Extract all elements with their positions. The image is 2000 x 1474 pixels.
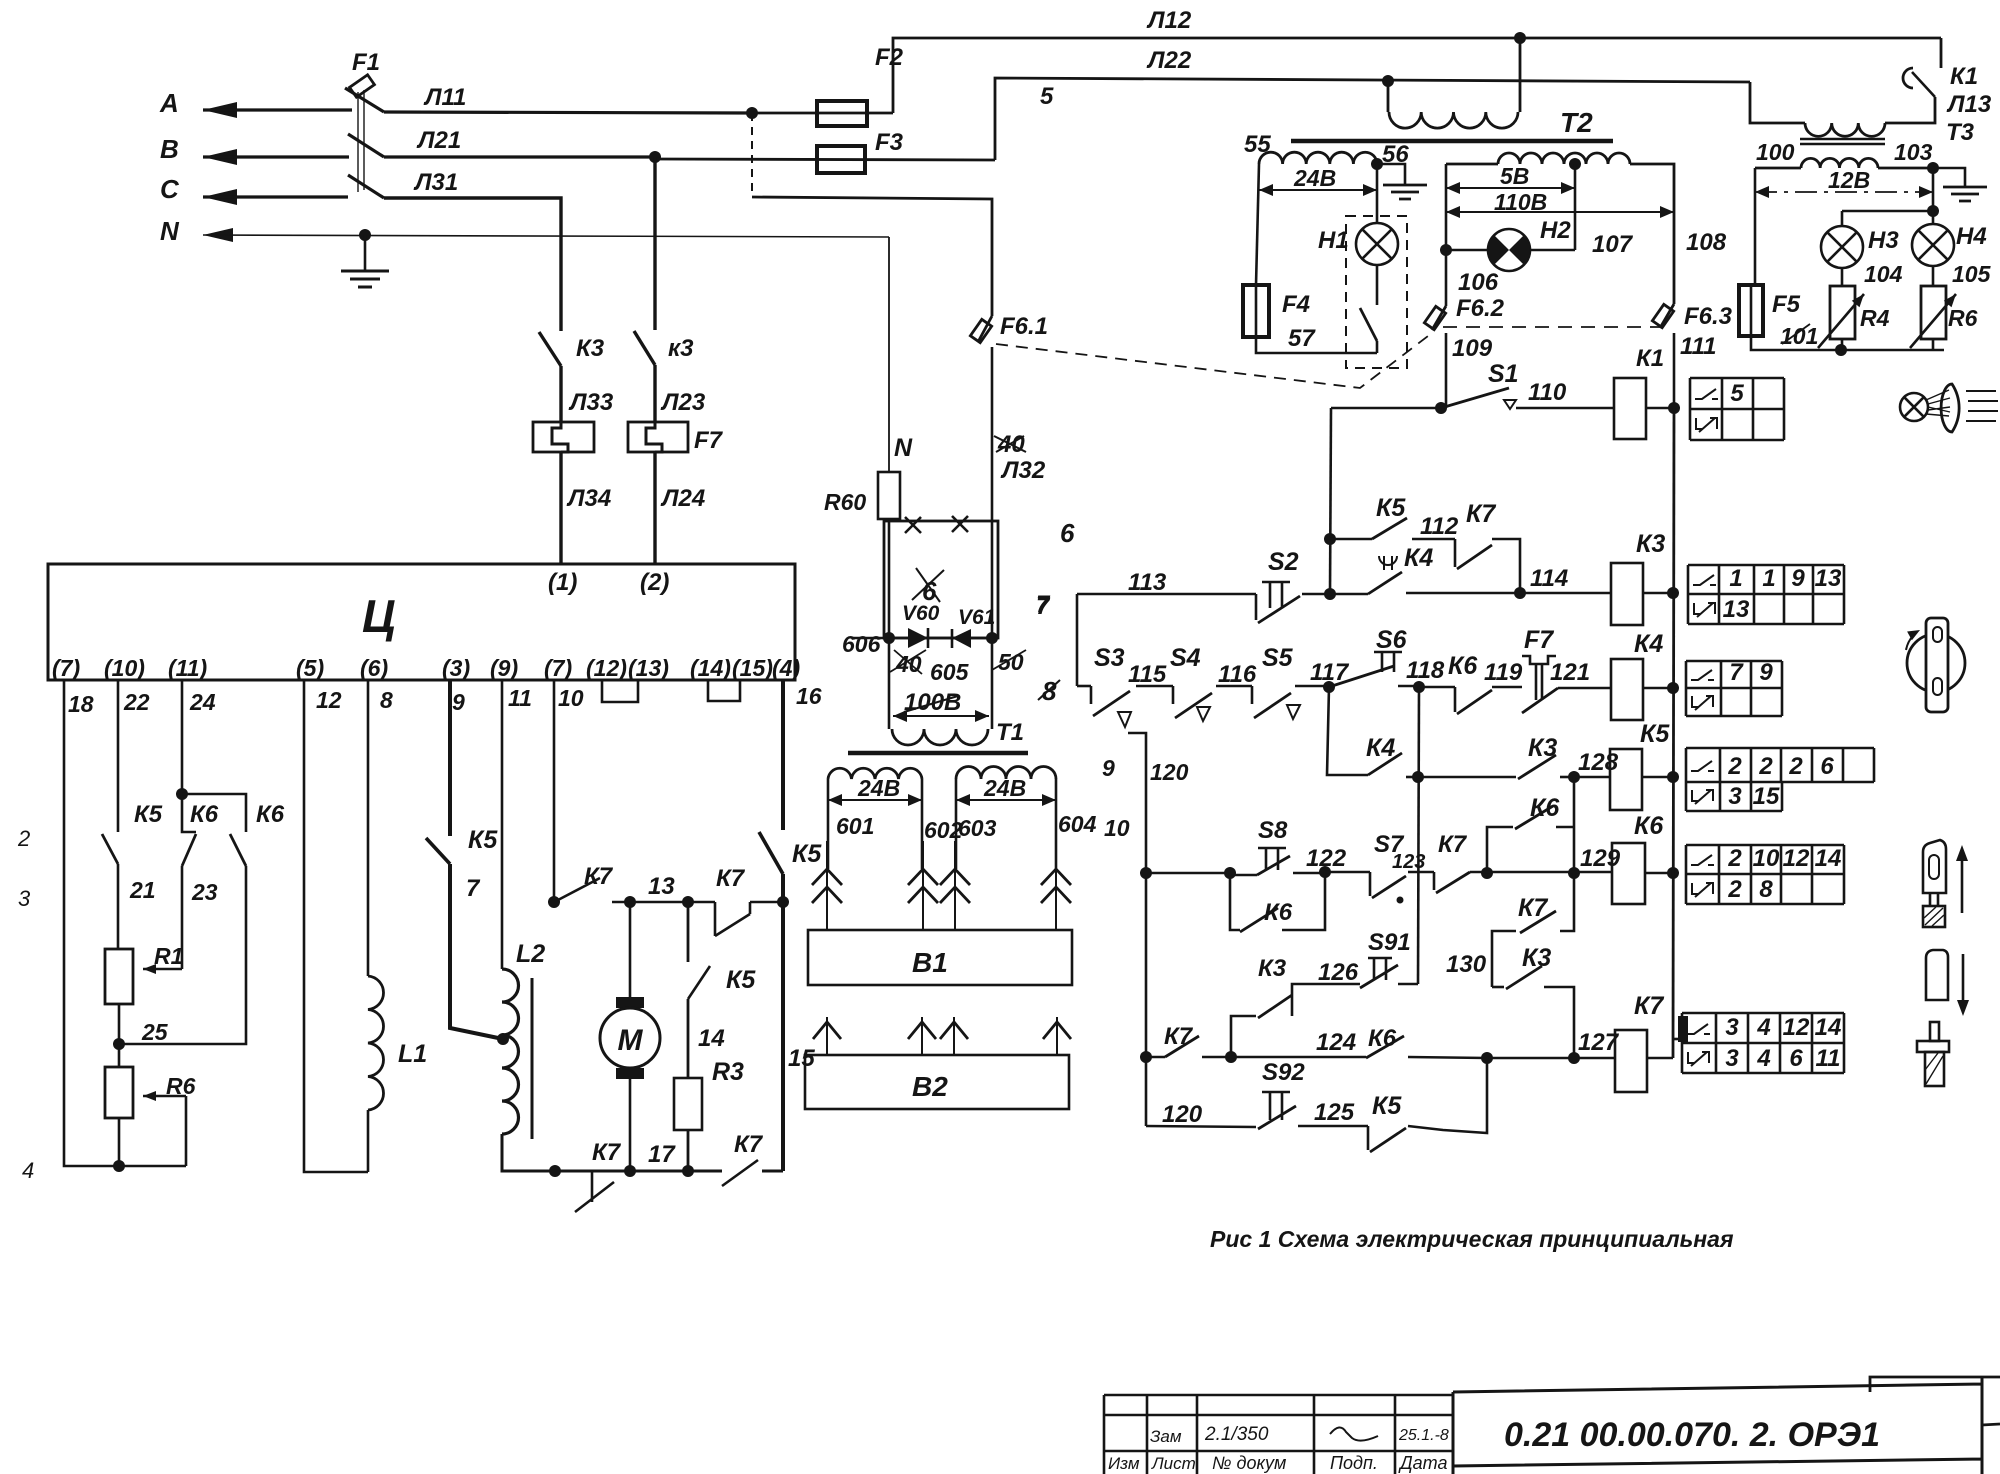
- svg-text:120: 120: [1150, 759, 1189, 785]
- svg-text:С: С: [160, 174, 180, 204]
- svg-text:Л31: Л31: [413, 169, 458, 196]
- fuse F6.1: [970, 319, 991, 342]
- svg-text:116: 116: [1218, 661, 1257, 688]
- svg-text:К7: К7: [592, 1139, 622, 1166]
- svg-text:S8: S8: [1258, 817, 1288, 844]
- svg-text:123: 123: [1392, 851, 1425, 873]
- svg-text:(14): (14): [690, 655, 731, 681]
- svg-text:(5): (5): [296, 655, 324, 681]
- svg-text:К5: К5: [1372, 1092, 1402, 1120]
- svg-text:13: 13: [648, 873, 675, 900]
- svg-text:Изм: Изм: [1108, 1454, 1140, 1473]
- arrow pair into B1 at x=1056: [1055, 841, 1057, 930]
- junction dot row14 right: [1481, 1052, 1493, 1064]
- junction dot L2 tap: [497, 1033, 509, 1045]
- svg-text:В2: В2: [912, 1071, 948, 1102]
- wire S1 to row1 vertical: [1330, 408, 1331, 594]
- junction dot K6 bypass left: [1481, 867, 1493, 879]
- svg-text:S92: S92: [1262, 1059, 1305, 1086]
- icon rotary switch knob: [1907, 634, 1965, 692]
- junction dot R4 bottom: [1835, 344, 1847, 356]
- svg-text:(15): (15): [732, 655, 773, 681]
- T2 secondary 5В-110В winding: [1446, 163, 1498, 166]
- arrow into B2 at x=827: [826, 1017, 828, 1055]
- svg-text:F6.1: F6.1: [1000, 313, 1048, 340]
- junction dot row3 left: [1412, 771, 1424, 783]
- svg-text:Подп.: Подп.: [1330, 1453, 1378, 1473]
- svg-text:Рис 1 Схема электрическая п: Рис 1 Схема электрическая принципиальная: [1210, 1226, 1734, 1252]
- svg-text:Л11: Л11: [423, 84, 466, 111]
- vertical bus right: [1673, 408, 1674, 1058]
- junction dot row1a: [1324, 533, 1336, 545]
- svg-text:9: 9: [1759, 659, 1773, 686]
- wire Л12: [893, 38, 1941, 113]
- svg-text:9: 9: [1791, 565, 1805, 592]
- svg-text:Н4: Н4: [1956, 223, 1987, 250]
- svg-text:6: 6: [1789, 1045, 1803, 1072]
- contact table K6: [1686, 845, 1844, 874]
- svg-text:К7: К7: [1466, 500, 1496, 528]
- junction dot bus K4: [1667, 682, 1679, 694]
- svg-text:21: 21: [129, 877, 156, 903]
- svg-text:R60: R60: [824, 489, 866, 515]
- svg-text:4: 4: [22, 1158, 34, 1183]
- svg-text:К7: К7: [1164, 1023, 1194, 1050]
- rectifier block B2: [805, 1055, 1069, 1109]
- svg-text:101: 101: [1780, 323, 1818, 349]
- svg-text:14: 14: [698, 1025, 725, 1052]
- row14 line: [1146, 1056, 1165, 1059]
- svg-text:F6.3: F6.3: [1684, 303, 1733, 330]
- svg-text:Т1: Т1: [996, 719, 1024, 746]
- svg-text:6: 6: [1060, 518, 1075, 548]
- wire 5В left vertical: [1445, 164, 1448, 306]
- svg-text:Л12: Л12: [1146, 7, 1192, 34]
- svg-text:2.1/350: 2.1/350: [1204, 1424, 1269, 1445]
- svg-text:К4: К4: [1366, 734, 1395, 762]
- black marker K7 table: [1678, 1016, 1688, 1042]
- svg-text:К7: К7: [1634, 992, 1664, 1020]
- svg-text:11: 11: [508, 685, 532, 711]
- svg-text:(1): (1): [548, 569, 577, 596]
- junction dot wire24: [176, 788, 188, 800]
- svg-text:5: 5: [1730, 380, 1744, 407]
- svg-text:R1: R1: [154, 943, 183, 969]
- svg-text:3: 3: [1725, 1045, 1739, 1072]
- svg-text:7: 7: [1036, 593, 1051, 620]
- svg-text:(4): (4): [772, 655, 800, 681]
- junction dot node 103: [1927, 162, 1939, 174]
- contact table K5: [1686, 748, 1874, 782]
- svg-text:24В: 24В: [983, 775, 1026, 801]
- svg-text:16: 16: [796, 683, 822, 709]
- svg-text:Т2: Т2: [1560, 107, 1593, 138]
- svg-text:24В: 24В: [1293, 165, 1336, 191]
- svg-text:Дата: Дата: [1398, 1453, 1448, 1473]
- fuse F6.3: [1652, 304, 1673, 327]
- svg-text:К5: К5: [1376, 494, 1406, 522]
- svg-text:605: 605: [930, 659, 970, 685]
- dashed enclosure around H1: [1346, 216, 1407, 368]
- svg-text:К7: К7: [584, 863, 614, 890]
- svg-text:К7: К7: [734, 1131, 764, 1158]
- svg-text:V61: V61: [958, 606, 995, 629]
- svg-text:57: 57: [1288, 325, 1316, 352]
- svg-text:R6: R6: [1948, 305, 1978, 331]
- svg-text:Н1: Н1: [1318, 227, 1349, 254]
- svg-text:Лист: Лист: [1151, 1454, 1196, 1473]
- junction dot 128: [1568, 771, 1580, 783]
- svg-text:L1: L1: [398, 1040, 427, 1068]
- svg-text:К5: К5: [1640, 720, 1670, 748]
- junction dot on N line: [359, 229, 371, 241]
- svg-text:К6: К6: [190, 801, 219, 828]
- svg-text:(10): (10): [104, 655, 145, 681]
- svg-text:110: 110: [1528, 379, 1567, 406]
- svg-text:Зам: Зам: [1150, 1427, 1182, 1446]
- arrow pair into B1 at x=955: [954, 841, 956, 930]
- svg-text:(3): (3): [442, 655, 470, 681]
- icon arrow up: [1961, 850, 1964, 913]
- wire 601: [827, 779, 830, 869]
- svg-text:А: А: [159, 88, 179, 118]
- arrow into B2 at x=1057: [1056, 1017, 1058, 1055]
- svg-text:12: 12: [316, 687, 342, 713]
- svg-text:10: 10: [1753, 845, 1780, 872]
- svg-text:Т3: Т3: [1946, 119, 1975, 146]
- svg-text:1: 1: [1729, 565, 1742, 592]
- svg-text:25.1.-8: 25.1.-8: [1398, 1427, 1449, 1444]
- svg-text:(13): (13): [628, 655, 669, 681]
- svg-text:121: 121: [1550, 659, 1590, 686]
- svg-text:К1: К1: [1636, 345, 1664, 372]
- wire 16 thick: [781, 680, 785, 830]
- ground at T2 24В winding: [1377, 164, 1405, 184]
- svg-text:604: 604: [1058, 811, 1097, 837]
- title block frame: [1104, 1395, 1453, 1474]
- svg-text:F3: F3: [875, 129, 904, 156]
- svg-text:128: 128: [1578, 749, 1619, 776]
- contact table K3: [1688, 565, 1844, 594]
- svg-text:100: 100: [1756, 139, 1795, 165]
- svg-text:112: 112: [1420, 513, 1459, 540]
- svg-text:24: 24: [189, 689, 216, 715]
- X mark left on rectifier box: [905, 517, 921, 533]
- svg-text:F5: F5: [1772, 291, 1801, 318]
- svg-text:107: 107: [1592, 231, 1634, 258]
- svg-text:14: 14: [1815, 1014, 1842, 1041]
- svg-text:F2: F2: [875, 44, 904, 71]
- svg-text:К3: К3: [576, 335, 605, 362]
- svg-text:3: 3: [18, 886, 31, 911]
- svg-text:(7): (7): [52, 655, 80, 681]
- svg-text:К5: К5: [726, 966, 756, 994]
- linkage F6.2 to F6.3 dashed: [1443, 326, 1662, 328]
- T2 secondary 24В winding 55-56: [1259, 152, 1377, 164]
- junction dot K1 right: [1668, 402, 1680, 414]
- svg-text:115: 115: [1128, 661, 1167, 688]
- svg-text:К6: К6: [256, 801, 285, 828]
- junction dot node 56: [1371, 158, 1383, 170]
- X mark right on rectifier box: [952, 516, 968, 532]
- svg-text:113: 113: [1128, 569, 1167, 596]
- svg-text:12В: 12В: [1828, 167, 1870, 193]
- row3 line to K3 contact: [1418, 776, 1516, 779]
- svg-text:F4: F4: [1282, 291, 1310, 318]
- svg-text:4: 4: [1756, 1045, 1770, 1072]
- svg-text:111: 111: [1680, 333, 1716, 360]
- svg-text:N: N: [894, 434, 913, 462]
- svg-text:L2: L2: [516, 940, 545, 968]
- mechanical linkage F6 dashed: [996, 336, 1428, 388]
- svg-text:К4: К4: [1634, 630, 1663, 658]
- ground at N line: [364, 235, 367, 270]
- svg-text:В: В: [160, 134, 179, 164]
- svg-text:4: 4: [1756, 1014, 1770, 1041]
- svg-text:55: 55: [1244, 131, 1271, 158]
- svg-text:8: 8: [380, 687, 393, 713]
- svg-text:10: 10: [1104, 815, 1130, 841]
- wire 604: [1055, 779, 1058, 869]
- svg-text:5: 5: [1040, 83, 1054, 110]
- tab below block between (12)(13): [602, 680, 638, 702]
- svg-text:2: 2: [1727, 753, 1742, 780]
- rectifier box: [884, 521, 998, 638]
- svg-text:2: 2: [1727, 876, 1742, 903]
- svg-text:104: 104: [1864, 261, 1903, 287]
- core of L2: [531, 978, 534, 1139]
- row11 line: [1146, 872, 1230, 875]
- svg-text:12: 12: [1783, 1014, 1810, 1041]
- junction dot wire16 row: [777, 896, 789, 908]
- svg-text:Л32: Л32: [1000, 457, 1046, 484]
- wire 18: [64, 680, 186, 1166]
- svg-text:7: 7: [466, 875, 481, 902]
- icon lamp with reflector: [1900, 393, 1928, 421]
- svg-text:106: 106: [1458, 269, 1499, 296]
- svg-text:109: 109: [1452, 335, 1493, 362]
- svg-text:8: 8: [1042, 676, 1057, 706]
- svg-text:V60: V60: [902, 602, 940, 625]
- svg-text:18: 18: [68, 691, 94, 717]
- T1 secondary winding right 24В: [956, 767, 1056, 780]
- junction dot 122: [1319, 866, 1331, 878]
- junction dot bottom left: [113, 1160, 125, 1172]
- junction dot row1b: [1324, 588, 1336, 600]
- motor M: [629, 902, 632, 997]
- junction dot 118: [1413, 681, 1425, 693]
- svg-text:129: 129: [1580, 845, 1621, 872]
- svg-text:0.21 00.00.070. 2. ОРЭ1: 0.21 00.00.070. 2. ОРЭ1: [1504, 1416, 1880, 1454]
- svg-text:606: 606: [842, 631, 881, 657]
- svg-text:S6: S6: [1376, 626, 1408, 654]
- svg-text:Л21: Л21: [416, 127, 461, 154]
- wire 12: [304, 680, 368, 1172]
- junction dot 117: [1323, 681, 1335, 693]
- svg-text:F7: F7: [694, 427, 724, 454]
- svg-text:F6.2: F6.2: [1456, 295, 1505, 322]
- svg-text:105: 105: [1952, 261, 1992, 287]
- svg-text:17: 17: [648, 1141, 676, 1168]
- wire 24: [181, 680, 184, 794]
- svg-text:5В: 5В: [1500, 163, 1529, 189]
- svg-text:N: N: [160, 216, 180, 246]
- svg-text:В1: В1: [912, 947, 948, 978]
- svg-text:F1: F1: [352, 49, 380, 76]
- svg-text:S1: S1: [1488, 360, 1519, 388]
- svg-text:7: 7: [1729, 659, 1744, 686]
- bottom bus of motor circuit: [555, 1170, 722, 1173]
- wire 11 and inductor L2: [501, 680, 504, 969]
- svg-text:к3: к3: [668, 335, 694, 362]
- tab below block between (14)(15): [708, 680, 740, 701]
- svg-text:Л24: Л24: [660, 485, 705, 512]
- svg-text:№ докум: № докум: [1212, 1453, 1286, 1473]
- svg-text:603: 603: [958, 815, 997, 841]
- svg-text:(11): (11): [168, 655, 207, 681]
- svg-text:R4: R4: [1860, 305, 1890, 331]
- junction dot Л22 to T2: [1382, 75, 1394, 87]
- row15 line: [1146, 1126, 1256, 1127]
- junction dot row14 left: [1140, 1051, 1152, 1063]
- junction dot K7 right top: [682, 896, 694, 908]
- transformer T1 primary: [892, 729, 988, 745]
- junction dot Л12 to T2: [1514, 32, 1526, 44]
- svg-text:2: 2: [1727, 845, 1742, 872]
- svg-text:23: 23: [191, 879, 218, 905]
- wire 602: [921, 779, 924, 869]
- svg-text:130: 130: [1446, 951, 1487, 978]
- svg-text:К4: К4: [1404, 544, 1433, 572]
- junction dot H3 top: [1927, 205, 1939, 217]
- icon tool with slot up: [1923, 840, 1946, 893]
- svg-text:Л13: Л13: [1946, 91, 1992, 118]
- svg-text:Л33: Л33: [568, 389, 614, 416]
- svg-text:2: 2: [1758, 753, 1773, 780]
- wiper of R6: [143, 1095, 186, 1098]
- arrow pair into B1 at x=827: [826, 841, 828, 930]
- svg-text:К5: К5: [468, 826, 498, 854]
- svg-text:22: 22: [123, 689, 150, 715]
- bus stub to K7 table: [1673, 1038, 1686, 1041]
- contact table K4: [1686, 661, 1782, 688]
- arrow pair into B1 at x=923: [922, 841, 924, 930]
- svg-text:13: 13: [1723, 596, 1750, 623]
- wire row1 left vertical: [1076, 594, 1079, 686]
- svg-text:S91: S91: [1368, 929, 1411, 956]
- transformer T3 primary: [1805, 123, 1885, 136]
- vertical 128 down and K6 bypass: [1573, 777, 1576, 873]
- controller block Ц: [48, 564, 795, 680]
- wire 22: [117, 680, 120, 832]
- junction dot bus K3: [1667, 587, 1679, 599]
- svg-text:125: 125: [1314, 1099, 1355, 1126]
- wire from A junction to rectifier: [751, 113, 753, 197]
- svg-text:119: 119: [1484, 659, 1523, 686]
- svg-text:S3: S3: [1094, 644, 1125, 672]
- svg-text:(2): (2): [640, 569, 669, 596]
- svg-text:14: 14: [1815, 845, 1842, 872]
- svg-text:К5: К5: [792, 840, 822, 868]
- junction dot H2 left: [1440, 244, 1452, 256]
- wiper of R1 from wire 24: [143, 968, 182, 971]
- svg-text:S2: S2: [1268, 548, 1299, 576]
- icon pin tool: [1930, 1022, 1939, 1041]
- wire T3 left vertical: [1754, 168, 1757, 285]
- rectifier block B1: [808, 930, 1072, 985]
- svg-text:601: 601: [836, 813, 874, 839]
- svg-text:М: М: [618, 1024, 644, 1057]
- wire 603: [955, 779, 958, 869]
- svg-text:9: 9: [1102, 755, 1115, 781]
- svg-text:К6: К6: [1448, 652, 1478, 680]
- svg-text:R3: R3: [712, 1058, 744, 1086]
- svg-text:124: 124: [1316, 1029, 1356, 1056]
- svg-text:К3: К3: [1636, 530, 1665, 558]
- junction dot bus K5: [1667, 771, 1679, 783]
- svg-text:Л23: Л23: [660, 389, 706, 416]
- junction dot row14 mid: [1225, 1051, 1237, 1063]
- svg-text:(7): (7): [544, 655, 572, 681]
- svg-text:Ц: Ц: [362, 590, 396, 642]
- svg-text:(6): (6): [360, 655, 388, 681]
- svg-text:12: 12: [1783, 845, 1810, 872]
- svg-text:(12): (12): [586, 655, 627, 681]
- svg-text:К5: К5: [134, 801, 163, 828]
- svg-text:127: 127: [1578, 1029, 1620, 1056]
- svg-text:К6: К6: [1634, 812, 1664, 840]
- svg-text:2: 2: [1788, 753, 1803, 780]
- vertical 118 to lower rows: [1418, 687, 1419, 984]
- transformer T3 core: [1800, 138, 1885, 141]
- wire 9 thick: [448, 680, 452, 836]
- svg-text:1: 1: [1762, 565, 1775, 592]
- svg-text:126: 126: [1318, 959, 1359, 986]
- svg-text:2: 2: [17, 826, 30, 851]
- arrow into B2 at x=954: [953, 1017, 955, 1055]
- row2 line S3 S4 S5: [1077, 685, 1091, 688]
- svg-text:(9): (9): [490, 655, 518, 681]
- T1 secondary winding left 24В: [828, 768, 922, 779]
- junction dot motor top: [624, 896, 636, 908]
- svg-text:15: 15: [1753, 783, 1780, 810]
- svg-text:24В: 24В: [857, 775, 900, 801]
- svg-text:3: 3: [1725, 1014, 1739, 1041]
- svg-text:Н3: Н3: [1868, 227, 1899, 254]
- junction dot 114: [1514, 587, 1526, 599]
- svg-text:103: 103: [1894, 139, 1933, 165]
- svg-text:10: 10: [558, 685, 584, 711]
- thermal element F7 left: [533, 422, 594, 452]
- svg-text:118: 118: [1406, 657, 1445, 684]
- svg-text:3: 3: [1728, 783, 1742, 810]
- junction dot K6 bypass right: [1568, 867, 1580, 879]
- T3 secondary winding 100-103: [1801, 158, 1878, 168]
- junction dot on A line: [746, 107, 758, 119]
- svg-text:Л34: Л34: [566, 485, 611, 512]
- contact table K1: [1690, 378, 1784, 409]
- junction dot wire10 top: [548, 896, 560, 908]
- icon plain plate: [1926, 950, 1948, 1000]
- junction dot row11 S8: [1224, 867, 1236, 879]
- icon arrow down: [1962, 954, 1965, 1010]
- svg-text:114: 114: [1530, 565, 1568, 592]
- svg-text:К1: К1: [1950, 63, 1978, 90]
- svg-text:К3: К3: [1258, 955, 1287, 982]
- svg-text:Н2: Н2: [1540, 217, 1571, 244]
- svg-text:8: 8: [1759, 876, 1773, 903]
- svg-text:11: 11: [1816, 1045, 1841, 1072]
